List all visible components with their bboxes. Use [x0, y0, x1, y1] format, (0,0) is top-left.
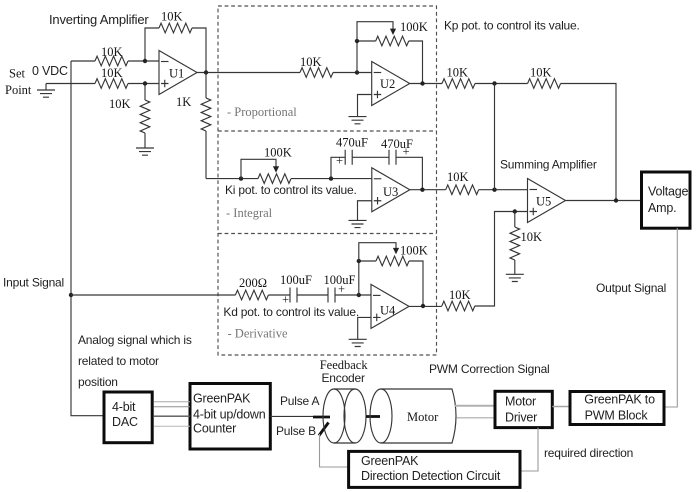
svg-text:GreenPAK: GreenPAK	[361, 454, 419, 468]
svg-text:required direction: required direction	[544, 446, 633, 460]
svg-text:10K: 10K	[521, 230, 543, 244]
svg-text:Ki pot. to control its value.: Ki pot. to control its value.	[225, 183, 357, 197]
svg-text:U3: U3	[383, 185, 398, 199]
svg-text:Inverting Amplifier: Inverting Amplifier	[49, 12, 149, 27]
svg-text:1K: 1K	[176, 95, 191, 109]
svg-text:position: position	[78, 375, 118, 389]
svg-text:4-bit up/down: 4-bit up/down	[193, 408, 266, 422]
svg-text:Pulse B: Pulse B	[276, 424, 316, 438]
svg-text:Amp.: Amp.	[648, 201, 676, 215]
svg-text:U4: U4	[380, 304, 396, 318]
svg-text:PWM Block: PWM Block	[585, 408, 649, 422]
svg-text:Pulse A: Pulse A	[280, 394, 319, 408]
svg-text:10K: 10K	[530, 66, 552, 80]
svg-text:100K: 100K	[400, 243, 428, 257]
svg-text:Summing Amplifier: Summing Amplifier	[500, 158, 597, 172]
svg-text:Motor: Motor	[407, 410, 439, 424]
svg-text:10K: 10K	[447, 170, 469, 184]
svg-text:Point: Point	[5, 83, 32, 97]
svg-text:10K: 10K	[109, 97, 131, 111]
svg-text:100uF: 100uF	[280, 273, 312, 287]
svg-text:10K: 10K	[101, 45, 123, 59]
svg-text:- Integral: - Integral	[226, 206, 273, 220]
svg-text:4-bit: 4-bit	[112, 400, 136, 414]
svg-text:Kp pot. to control its value.: Kp pot. to control its value.	[444, 19, 580, 33]
svg-text:U5: U5	[536, 194, 551, 208]
svg-text:Motor: Motor	[505, 395, 536, 409]
svg-text:GreenPAK to: GreenPAK to	[584, 393, 655, 407]
svg-text:Encoder: Encoder	[322, 371, 365, 385]
svg-text:0 VDC: 0 VDC	[32, 64, 68, 78]
svg-text:Driver: Driver	[505, 411, 537, 425]
svg-text:100K: 100K	[264, 146, 292, 160]
svg-text:+: +	[403, 144, 410, 158]
svg-text:Input Signal: Input Signal	[3, 275, 64, 289]
svg-text:+: +	[336, 154, 343, 168]
svg-text:+: +	[282, 292, 289, 306]
svg-text:10K: 10K	[300, 55, 322, 69]
svg-text:10K: 10K	[101, 66, 123, 80]
svg-text:U2: U2	[380, 77, 395, 91]
svg-text:Feedback: Feedback	[320, 358, 369, 372]
svg-text:+: +	[338, 282, 345, 296]
svg-text:GreenPAK: GreenPAK	[193, 392, 251, 406]
svg-text:Voltage: Voltage	[648, 185, 689, 199]
svg-text:10K: 10K	[161, 9, 183, 23]
svg-text:U1: U1	[169, 67, 184, 81]
svg-text:- Proportional: - Proportional	[227, 105, 297, 119]
svg-text:10K: 10K	[449, 288, 471, 302]
svg-text:Counter: Counter	[193, 422, 236, 436]
svg-text:Analog signal which is: Analog signal which is	[78, 333, 192, 347]
svg-text:Direction Detection Circuit: Direction Detection Circuit	[361, 469, 501, 483]
svg-text:- Derivative: - Derivative	[228, 327, 288, 341]
svg-text:Kd pot. to control its value.: Kd pot. to control its value.	[223, 305, 359, 319]
svg-text:200Ω: 200Ω	[239, 276, 267, 290]
svg-text:10K: 10K	[447, 66, 469, 80]
svg-text:Set: Set	[9, 67, 26, 81]
svg-text:Output Signal: Output Signal	[596, 281, 666, 295]
svg-text:PWM Correction Signal: PWM Correction Signal	[429, 362, 550, 376]
svg-text:related to motor: related to motor	[78, 354, 159, 368]
svg-text:470uF: 470uF	[336, 136, 368, 150]
svg-text:DAC: DAC	[112, 415, 138, 429]
svg-text:100K: 100K	[400, 20, 428, 34]
